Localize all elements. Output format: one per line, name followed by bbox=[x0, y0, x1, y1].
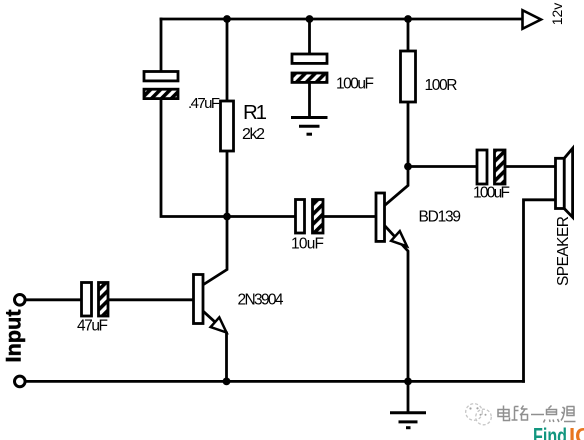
svg-text:2N3904: 2N3904 bbox=[238, 292, 284, 309]
wire node B to C3 bbox=[227, 215, 296, 218]
capacitor C4 100uF output bbox=[477, 150, 505, 184]
svg-text:10uF: 10uF bbox=[291, 236, 324, 253]
wire left drop to C1 bbox=[160, 19, 163, 72]
resistor R1 bbox=[221, 101, 234, 151]
wire C2 to ground bbox=[308, 83, 311, 118]
transistor Q1 2N3904 bbox=[194, 275, 204, 324]
wire input top bbox=[25, 298, 82, 301]
wire C1 bottom to node B bbox=[161, 99, 227, 217]
wire Q1 emitter to bottom rail bbox=[204, 312, 227, 382]
transistor Q2 BD139 bbox=[376, 193, 385, 241]
svg-text:100uF: 100uF bbox=[473, 185, 510, 202]
svg-text:2k2: 2k2 bbox=[242, 126, 265, 143]
svg-text:47uF: 47uF bbox=[77, 318, 108, 335]
input terminal top bbox=[14, 295, 25, 306]
wire R2 drop bbox=[407, 19, 410, 51]
wire ground stub bottom bbox=[407, 381, 410, 412]
resistor R2 100R bbox=[401, 51, 416, 102]
ground main bbox=[390, 413, 426, 428]
wire R1 top bbox=[226, 19, 229, 101]
wire C2 drop bbox=[308, 19, 311, 54]
wire bottom rail bbox=[25, 380, 524, 383]
wire C3 to Q2 base bbox=[324, 215, 377, 218]
wire R1 bottom to Q1 collector bbox=[204, 151, 228, 285]
power arrow 12v bbox=[523, 10, 542, 29]
node E1 bbox=[223, 378, 231, 386]
node dots bbox=[223, 15, 412, 385]
wire node C to C4 bbox=[408, 165, 477, 168]
speaker bbox=[556, 148, 573, 217]
svg-text:12v: 12v bbox=[549, 3, 565, 26]
wire R2 bottom to Q2 collector bbox=[385, 102, 409, 206]
svg-text:100R: 100R bbox=[425, 77, 458, 94]
svg-text:100uF: 100uF bbox=[336, 76, 374, 93]
node top-C2 bbox=[306, 15, 314, 23]
wire top rail bbox=[161, 18, 523, 21]
svg-text:SPEAKER: SPEAKER bbox=[555, 216, 572, 286]
capacitor C5 47uF input bbox=[82, 283, 109, 317]
capacitor C1 .47uF bbox=[144, 72, 178, 99]
watermark chinese text bbox=[498, 406, 576, 423]
wire Q2 emitter to bottom rail bbox=[385, 226, 409, 382]
wire speaker return bbox=[524, 200, 556, 382]
svg-text:Input: Input bbox=[2, 310, 26, 363]
svg-text:R1: R1 bbox=[243, 101, 267, 124]
svg-text:.47uF: .47uF bbox=[188, 95, 220, 112]
capacitor C2 100uF bbox=[292, 54, 327, 82]
watermark logo circles bbox=[466, 404, 492, 425]
input terminal bottom bbox=[14, 376, 25, 387]
node B bbox=[223, 213, 231, 221]
ground C2 bbox=[291, 118, 328, 135]
capacitor C3 10uF bbox=[296, 200, 324, 234]
node top-R2 bbox=[404, 15, 412, 23]
node top-R1 bbox=[223, 15, 231, 23]
svg-text:BD139: BD139 bbox=[419, 209, 462, 226]
svg-text:FindIC: FindIC bbox=[533, 424, 584, 440]
node C bbox=[404, 163, 412, 171]
node E2 bbox=[404, 378, 412, 386]
wire C4 to speaker bbox=[505, 165, 556, 168]
wire C5 to Q1 base bbox=[108, 298, 194, 301]
